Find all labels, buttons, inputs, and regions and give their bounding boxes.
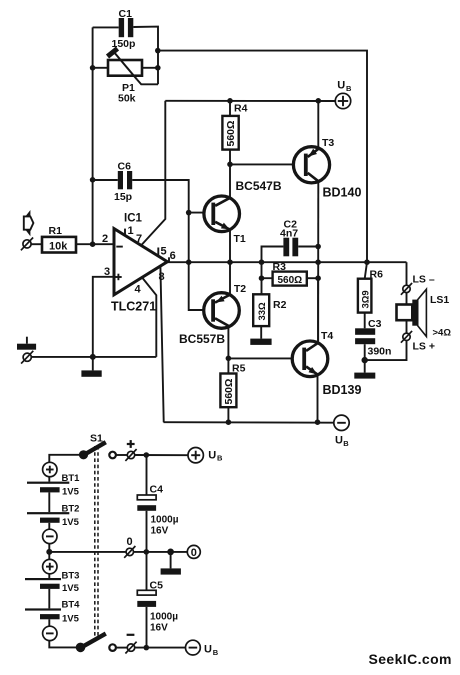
wire: V- rail xyxy=(164,421,334,424)
svg-text:0: 0 xyxy=(127,536,133,548)
node: bus junction at R6 branch xyxy=(364,259,370,265)
svg-text:C1: C1 xyxy=(119,8,133,20)
svg-text:R5: R5 xyxy=(232,362,246,374)
svg-text:T4: T4 xyxy=(321,330,333,342)
terminal minus (circle with slash) xyxy=(125,635,136,654)
svg-text:16V: 16V xyxy=(150,623,168,634)
wire: plus circle to BT1 xyxy=(48,477,50,482)
svg-text:50k: 50k xyxy=(118,93,136,105)
transistor Q T1 BC547B xyxy=(204,179,282,245)
svg-text:B: B xyxy=(343,439,349,448)
svg-text:1000µ: 1000µ xyxy=(151,515,179,526)
svg-text:1V5: 1V5 xyxy=(62,583,80,594)
pin 4 label and drop to ground wire xyxy=(142,277,156,357)
switch S1 upper lever xyxy=(82,442,106,456)
wire: R4 bottom lead to T1 collector node xyxy=(229,150,231,165)
wire: T4 emitter down to V- rail xyxy=(317,375,319,422)
svg-text:R2: R2 xyxy=(273,299,287,311)
svg-text:2: 2 xyxy=(102,233,108,245)
wire: C1 right lead to right drop xyxy=(133,27,158,85)
wire: C6 right lead to T1 base drop xyxy=(132,180,211,310)
wire: pin7 supply drop xyxy=(141,101,165,246)
svg-text:IC1: IC1 xyxy=(124,213,143,225)
node: P1 left junction xyxy=(90,65,96,71)
terminal plus (circle with slash) xyxy=(125,440,136,461)
svg-text:560Ω: 560Ω xyxy=(225,121,237,147)
switch S1 linkage dashed line xyxy=(95,446,98,639)
svg-text:B: B xyxy=(217,454,223,463)
MAIN-AMP xyxy=(17,8,451,448)
wire: C2 right lead xyxy=(298,246,318,248)
svg-text:4n7: 4n7 xyxy=(280,228,298,240)
switch S1 upper contact xyxy=(109,452,116,459)
wire: T4 collector up to R3 node xyxy=(317,278,319,343)
svg-text:BC547B: BC547B xyxy=(236,179,282,193)
svg-text:0: 0 xyxy=(191,547,197,559)
svg-text:560Ω: 560Ω xyxy=(223,379,235,405)
battery BT1 1V5 xyxy=(27,473,80,498)
svg-text:390n: 390n xyxy=(368,345,392,357)
battery BT4 1V5 xyxy=(25,600,80,625)
wire: plus terminal to +UB out xyxy=(135,454,188,456)
supply terminal +UB top xyxy=(335,80,352,109)
terminal LS- (circle with slash) xyxy=(401,274,435,295)
node: bus junction at T1/T2 emitters xyxy=(227,259,233,265)
ground below R2 xyxy=(250,339,271,345)
node: bus junction at T2 base branch xyxy=(186,259,192,265)
node: pin2 junction xyxy=(90,241,96,247)
node: bus junction at C2/R3 branch xyxy=(259,259,265,265)
switch S1 lower lever xyxy=(79,634,106,649)
svg-text:LS –: LS – xyxy=(413,274,435,286)
wire: R4 top lead xyxy=(229,101,231,116)
svg-text:R4: R4 xyxy=(234,103,248,115)
wire: ground run to pin4 drop xyxy=(31,356,156,358)
wire: minus circle to bottom rail to switch pivot xyxy=(49,641,80,648)
node: C3/ground/LS+ junction xyxy=(362,357,368,363)
wire: left vertical bus from C1 down to pin2 node xyxy=(92,27,94,244)
wire: output bus pin6 xyxy=(167,261,406,263)
svg-text:BT1: BT1 xyxy=(62,473,81,484)
svg-text:B: B xyxy=(213,648,219,657)
op-amp U1 IC1 TLC271 xyxy=(111,213,167,314)
wire: T1 base lead xyxy=(189,212,212,214)
node: ground 0-rail junction xyxy=(167,549,174,556)
wire: R3 left lead from bus xyxy=(262,262,273,278)
svg-text:LS +: LS + xyxy=(413,341,435,353)
svg-text:R1: R1 xyxy=(49,225,63,237)
svg-text:16V: 16V xyxy=(151,526,169,537)
node: C5 bottom junction xyxy=(144,645,150,651)
svg-text:4: 4 xyxy=(135,283,142,295)
wire: minus circle to 0 rail xyxy=(48,544,50,560)
wire: R2 top lead xyxy=(261,278,263,294)
pin 6 tick and label xyxy=(168,257,170,262)
wire: C6 left lead xyxy=(93,179,118,181)
node: T3 emitter rail junction xyxy=(316,98,322,104)
svg-text:C4: C4 xyxy=(150,484,164,496)
ground symbol below pin3 run xyxy=(81,357,101,377)
wire: bus to LS- drop xyxy=(406,262,408,285)
capacitor C4 1000u electrolytic xyxy=(137,484,178,537)
wire: R1 to pin2 xyxy=(76,243,114,245)
wire: C3 bottom lead xyxy=(364,344,366,360)
wire: top rail from feedback node to right edge xyxy=(158,51,367,263)
wire: T1 collector up to R4 node xyxy=(229,164,231,198)
svg-text:BT2: BT2 xyxy=(62,504,80,515)
node: ground-run junction xyxy=(90,354,96,360)
wire: C1 left lead xyxy=(93,26,119,28)
svg-text:B: B xyxy=(346,84,352,93)
wire: minus terminal to -UB out xyxy=(135,647,186,649)
wire: battery top lead to switch pivot xyxy=(49,455,83,463)
transistor Q T4 BD139 xyxy=(292,330,361,397)
svg-text:1: 1 xyxy=(128,225,134,237)
svg-text:BT4: BT4 xyxy=(62,600,81,611)
capacitor C6 xyxy=(114,161,132,203)
wire: P1 wiper tail to right bus xyxy=(137,80,158,85)
node: R4 top junction xyxy=(227,98,233,104)
speaker LS1 xyxy=(397,289,452,338)
svg-text:U: U xyxy=(335,435,343,447)
wire: T1 emitter down to output bus xyxy=(229,229,231,262)
terminal 0 (circle with slash) xyxy=(124,536,135,558)
svg-text:BT3: BT3 xyxy=(62,570,80,581)
battery BT2 1V5 xyxy=(27,504,80,528)
pin 8 tick, label and drop to negative rail xyxy=(160,266,163,422)
capacitor C5 1000u electrolytic xyxy=(137,580,178,634)
wire: BT2 to minus circle xyxy=(48,523,50,529)
wire: LS+ down to C3 node xyxy=(365,341,407,361)
wire: T3 base lead xyxy=(230,163,304,165)
wire: input terminal to R1 xyxy=(31,243,42,245)
battery BT4 minus terminal circle xyxy=(43,626,57,640)
transistor Q T2 BC557B xyxy=(179,283,246,346)
wire: T2 emitter up to output bus xyxy=(229,262,231,295)
resistor R3 560R xyxy=(273,261,307,286)
svg-text:C5: C5 xyxy=(150,580,164,592)
svg-text:8: 8 xyxy=(159,271,165,283)
wire: C4 top lead xyxy=(146,455,148,495)
node: R3 right junction xyxy=(315,275,321,281)
svg-text:7: 7 xyxy=(136,233,142,245)
battery BT3 plus terminal circle xyxy=(43,559,57,573)
svg-text:1V5: 1V5 xyxy=(62,487,80,498)
wire: C2 left lead from bus xyxy=(262,247,284,263)
potentiometer P1 xyxy=(108,49,143,105)
wire: 0 terminal to 0 output xyxy=(134,551,188,553)
svg-text:TLC271: TLC271 xyxy=(111,300,156,314)
wire: R6 bottom lead to C3 xyxy=(364,313,366,329)
pin 1 tick and label xyxy=(124,229,126,236)
wire: R6 top lead xyxy=(365,262,367,279)
svg-text:1V5: 1V5 xyxy=(62,517,80,528)
svg-text:R6: R6 xyxy=(370,268,384,280)
svg-text:BD139: BD139 xyxy=(323,383,362,397)
svg-text:10k: 10k xyxy=(49,241,68,253)
ground below C3 xyxy=(354,360,375,379)
wire: BT4 to minus circle xyxy=(48,619,50,626)
supply output -UB xyxy=(186,640,219,657)
svg-text:15p: 15p xyxy=(114,191,132,203)
svg-text:1000µ: 1000µ xyxy=(150,612,178,623)
supply output +UB xyxy=(188,448,223,463)
resistor R2 33R xyxy=(253,294,286,326)
supply terminal -UB mid xyxy=(334,415,350,448)
svg-text:T3: T3 xyxy=(322,137,334,149)
svg-text:T2: T2 xyxy=(234,283,246,295)
wire: V+ rail y=100.8 xyxy=(165,100,335,102)
wire: R5 bottom lead xyxy=(227,407,229,422)
node: R5 bottom rail junction xyxy=(226,419,232,425)
switch S1 lower contact xyxy=(109,644,116,651)
svg-text:33Ω: 33Ω xyxy=(257,302,268,321)
capacitor C1 xyxy=(112,8,136,50)
resistor R4 560R xyxy=(222,103,247,150)
resistor R1 10k xyxy=(42,225,76,253)
resistor R6 3R9 xyxy=(358,268,383,312)
wire: LS- to speaker xyxy=(406,293,408,305)
wire: C5 top lead xyxy=(146,552,148,590)
node: C2 right junction xyxy=(315,244,321,250)
wire: C4 bottom lead to 0 rail xyxy=(146,511,148,552)
svg-text:BD140: BD140 xyxy=(323,186,362,200)
node: R4/T1/T3 junction xyxy=(227,162,233,168)
wire: R5 top lead xyxy=(227,358,229,373)
input connector arrow xyxy=(24,210,34,236)
node: bus junction at output column xyxy=(315,259,321,265)
node: C4 top junction xyxy=(144,452,150,458)
input return terminal (circle with slash) xyxy=(21,351,33,364)
svg-text:C3: C3 xyxy=(368,318,382,330)
node: top-feedback junction xyxy=(155,48,161,54)
node: R3/R2 left junction xyxy=(259,275,265,281)
wire: T4 base lead xyxy=(228,357,302,359)
node: T2/R5/T4-base junction xyxy=(226,356,232,362)
battery BT2 minus terminal circle xyxy=(43,529,57,543)
wire: T3 emitter to V+ rail xyxy=(317,101,319,149)
svg-text:R3: R3 xyxy=(273,261,287,273)
svg-text:3Ω9: 3Ω9 xyxy=(360,290,371,308)
svg-text:U: U xyxy=(337,80,345,92)
node: T4 emitter rail junction xyxy=(315,419,321,425)
wire: R3 right lead xyxy=(307,277,318,279)
svg-text:U: U xyxy=(208,449,216,461)
svg-text:>4Ω: >4Ω xyxy=(433,328,452,339)
wire: T3 collector down right column xyxy=(317,181,319,343)
node: T1 base junction xyxy=(186,210,192,216)
node: C4/C5 0-rail junction xyxy=(144,549,150,555)
wire: BT1 to BT2 xyxy=(48,492,50,512)
input terminal (circle with slash) xyxy=(21,238,33,251)
pin 5 tick and label xyxy=(157,248,159,257)
switch S1 lower pole pivot xyxy=(76,643,86,653)
node: C6 left junction xyxy=(90,177,96,183)
wire: C5 bottom lead to -UB rail xyxy=(146,607,148,648)
svg-text:6: 6 xyxy=(170,250,176,262)
wire: P1 left lead xyxy=(93,67,108,69)
terminal LS+ (circle with slash) xyxy=(401,331,435,353)
wire: R2 bottom lead xyxy=(260,326,262,339)
wire: upper contact to plus terminal xyxy=(116,454,127,456)
svg-text:T1: T1 xyxy=(234,233,246,245)
wire: 0 rail xyxy=(49,551,126,553)
wire: P1 right lead xyxy=(142,67,158,69)
svg-text:BC557B: BC557B xyxy=(179,332,225,346)
wire: BT3 to BT4 xyxy=(48,589,50,609)
svg-text:SeekIC.com: SeekIC.com xyxy=(369,651,452,667)
wire: lower contact to minus terminal xyxy=(116,647,127,649)
capacitor C3 390n xyxy=(355,318,391,357)
node: battery midpoint junction xyxy=(46,549,52,555)
svg-text:U: U xyxy=(204,644,212,656)
svg-text:LS1: LS1 xyxy=(430,294,449,306)
wire: pin3 to ground run xyxy=(93,277,114,357)
svg-text:560Ω: 560Ω xyxy=(278,275,303,286)
switch S1 upper pole pivot xyxy=(79,450,88,459)
battery BT1 plus terminal circle xyxy=(43,462,57,476)
svg-text:C6: C6 xyxy=(118,161,132,173)
battery BT3 1V5 xyxy=(25,570,80,594)
wire: T2 collector down to R5 node xyxy=(227,326,229,358)
chassis ground at input return xyxy=(17,337,36,350)
ground below 0 rail xyxy=(161,552,181,575)
wire: plus circle to BT3 xyxy=(48,574,50,578)
svg-text:1V5: 1V5 xyxy=(62,613,80,624)
PSU xyxy=(25,433,223,658)
transistor Q T3 BD140 xyxy=(293,137,361,200)
node: P1 right junction xyxy=(155,65,161,71)
svg-text:5: 5 xyxy=(161,246,167,258)
resistor R5 560R xyxy=(220,362,245,407)
capacitor C2 4n7 xyxy=(280,219,298,257)
wire: speaker to LS+ xyxy=(406,320,408,333)
output terminal 0 xyxy=(187,545,200,559)
